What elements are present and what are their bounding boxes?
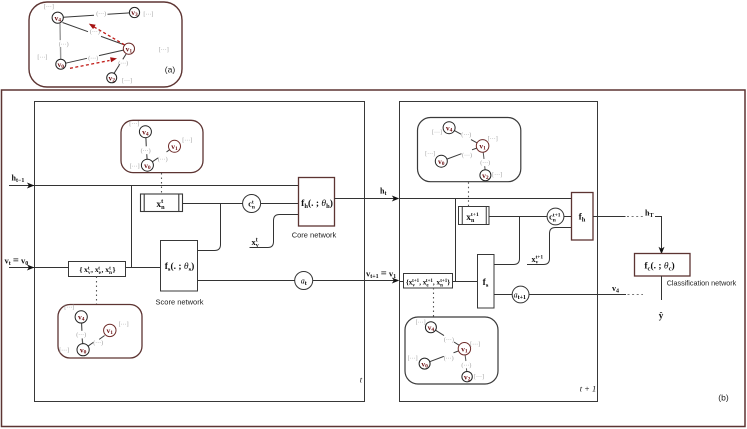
svg-text:(···): (···) [88,55,98,62]
svg-text:(b): (b) [718,392,729,402]
svg-text:ŷ: ŷ [659,311,664,321]
svg-text:Score network: Score network [156,298,204,307]
svg-text:vt = v0: vt = v0 [5,256,29,268]
svg-text:[···]: [···] [119,322,129,328]
svg-text:[···]: [···] [474,375,484,381]
svg-text:(···): (···) [141,147,151,154]
svg-text:(···): (···) [480,160,490,167]
svg-text:(···): (···) [461,131,471,138]
svg-text:[···]: [···] [122,78,132,84]
svg-text:Core network: Core network [292,231,337,240]
svg-text:(···): (···) [444,336,454,343]
svg-text:(···): (···) [158,156,168,163]
svg-text:(···): (···) [59,41,69,48]
svg-text:(···): (···) [444,355,454,362]
svg-text:[···]: [···] [425,152,435,158]
svg-text:[···]: [···] [37,55,47,61]
svg-text:[···]: [···] [129,121,139,127]
svg-text:(···): (···) [96,11,106,18]
svg-text:(···): (···) [461,362,471,369]
svg-text:(···): (···) [118,60,128,67]
svg-text:[···]: [···] [470,342,480,348]
svg-text:[···]: [···] [416,320,426,326]
svg-text:[···]: [···] [44,5,54,11]
svg-text:[···]: [···] [488,137,498,143]
svg-text:(···): (···) [76,332,86,339]
svg-text:[···]: [···] [130,164,140,170]
svg-text:[···]: [···] [182,138,192,144]
svg-text:(a): (a) [165,64,176,74]
svg-text:(···): (···) [462,152,472,159]
svg-text:t + 1: t + 1 [580,384,597,394]
svg-text:[···]: [···] [432,130,442,136]
svg-text:[···]: [···] [64,305,74,311]
svg-text:[···]: [···] [408,356,418,362]
svg-text:(···): (···) [93,339,103,346]
svg-text:Classification network: Classification network [667,279,737,288]
svg-text:[···]: [···] [159,48,169,54]
svg-text:(···): (···) [90,28,100,35]
svg-text:[···]: [···] [143,12,153,18]
svg-text:[···]: [···] [492,173,502,179]
svg-text:[···]: [···] [59,348,69,354]
